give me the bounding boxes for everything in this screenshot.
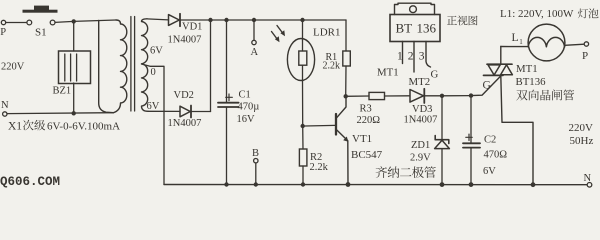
- svg-text:2.9V: 2.9V: [410, 152, 431, 163]
- label triac (Chinese): [516, 90, 574, 101]
- BT136 package legs: [403, 42, 431, 73]
- junction C2 bottom: [469, 182, 474, 187]
- svg-text:BT136: BT136: [516, 76, 547, 88]
- junction triac bottom: [531, 182, 536, 187]
- svg-text:0: 0: [151, 67, 156, 78]
- terminal N (left): [1, 100, 9, 116]
- transformer core: [131, 17, 135, 112]
- transformer T1 primary winding: [99, 20, 127, 113]
- label 0 center tap: [151, 67, 156, 78]
- svg-text:G: G: [483, 80, 491, 92]
- svg-text:6V: 6V: [150, 46, 163, 57]
- svg-text:N: N: [1, 100, 9, 111]
- triac MT1 BT136: [484, 47, 547, 185]
- wire VD2 riser: [210, 20, 212, 112]
- junction emitter: [346, 182, 351, 187]
- resistor R2 2.2k: [299, 126, 328, 185]
- svg-text:Q606.COM: Q606.COM: [0, 175, 60, 189]
- label X1 secondary rating: [8, 120, 120, 133]
- terminal N (right): [584, 173, 592, 187]
- junction LDR bottom / base: [301, 124, 305, 128]
- svg-text:470Ω: 470Ω: [484, 150, 508, 161]
- svg-text:L: L: [512, 32, 519, 44]
- label pin 2: [408, 51, 414, 63]
- junction ZD1 bottom: [440, 182, 445, 187]
- diode VD3 1N4007: [404, 89, 443, 126]
- svg-text:VT1: VT1: [352, 133, 372, 145]
- wire N to transformer primary: [7, 112, 114, 115]
- node A terminal: [251, 20, 259, 58]
- resistor R3 220: [346, 92, 410, 126]
- svg-text:BT: BT: [396, 21, 413, 36]
- label front view (Chinese): [447, 15, 478, 25]
- terminal P (right): [582, 42, 589, 62]
- svg-text:MT1: MT1: [516, 63, 538, 75]
- wire gate: [471, 76, 501, 96]
- wire P to S1: [6, 22, 27, 24]
- wire S1 to transformer primary: [55, 20, 116, 22]
- svg-text:6V: 6V: [483, 166, 496, 177]
- photoresistor LDR1: [287, 20, 340, 126]
- BT136 package body: [390, 15, 440, 42]
- transformer T1 secondary winding: [142, 19, 149, 112]
- svg-text:MT1: MT1: [377, 67, 399, 79]
- svg-text:A: A: [251, 47, 259, 58]
- svg-text:B: B: [252, 148, 259, 159]
- svg-text:2: 2: [408, 51, 414, 63]
- label G pin: [431, 69, 439, 81]
- svg-text:ZD1: ZD1: [411, 140, 430, 151]
- label 220V mains: [1, 62, 25, 73]
- diode VD1 1N4007: [147, 14, 202, 46]
- svg-text:1N4007: 1N4007: [168, 35, 202, 46]
- svg-text:VD2: VD2: [174, 90, 194, 101]
- junction top-left: [72, 19, 76, 23]
- label pin 1: [397, 51, 403, 63]
- svg-text:P: P: [0, 27, 6, 38]
- resistor R1 2.2k: [323, 20, 351, 96]
- buzzer BZ1: [53, 23, 91, 114]
- svg-text:BC547: BC547: [351, 149, 383, 161]
- svg-text:C1: C1: [239, 90, 251, 101]
- wire lamp to P: [565, 44, 584, 45]
- svg-text:VD1: VD1: [182, 22, 202, 33]
- svg-text:6V: 6V: [147, 101, 160, 112]
- label MT1 pin: [377, 67, 399, 79]
- junction C1 top: [224, 18, 228, 22]
- label MT2 pin: [409, 76, 431, 88]
- capacitor C1 470u 16V: [218, 20, 259, 185]
- node B terminal: [252, 148, 259, 184]
- junction C1 bottom: [224, 182, 228, 186]
- light arrows: [272, 26, 286, 43]
- zener diode ZD1 2.9V: [410, 96, 449, 185]
- junction ZD1 top: [440, 94, 444, 98]
- junction R2 bottom: [301, 182, 305, 186]
- lamp L1: [501, 24, 565, 61]
- label zener (Chinese): [375, 166, 435, 178]
- svg-text:G: G: [431, 69, 439, 81]
- label mains 50Hz: [570, 135, 594, 147]
- svg-text:MT2: MT2: [409, 76, 431, 88]
- junction VD riser: [208, 18, 212, 22]
- svg-text:3: 3: [419, 51, 425, 63]
- svg-text:1N4007: 1N4007: [404, 114, 438, 125]
- junction bottom-left: [72, 111, 76, 115]
- wire bottom bus: [164, 184, 587, 186]
- junction C2 top: [469, 93, 473, 97]
- transistor VT1 BC547: [305, 97, 383, 185]
- svg-text:1: 1: [397, 51, 403, 63]
- capacitor C2: [463, 96, 507, 185]
- label 6V top tap: [150, 46, 163, 57]
- svg-text:220V: 220V: [569, 122, 594, 134]
- junction R1/collector/R3: [344, 94, 348, 98]
- svg-text:BZ1: BZ1: [53, 86, 72, 97]
- BT136 package tab: [395, 3, 435, 14]
- svg-text:1: 1: [519, 38, 523, 46]
- label pin 3: [419, 51, 425, 63]
- svg-text:L1: 220V, 100W: L1: 220V, 100W: [500, 8, 574, 20]
- watermark Q606.COM: [0, 175, 60, 189]
- svg-text:6V-0-6V.100mA: 6V-0-6V.100mA: [47, 121, 120, 133]
- wire center tap down: [142, 64, 165, 185]
- svg-text:X1: X1: [8, 121, 22, 133]
- svg-text:220Ω: 220Ω: [357, 115, 381, 126]
- terminal P (left): [0, 20, 6, 38]
- svg-text:136: 136: [417, 21, 437, 36]
- svg-text:C2: C2: [484, 135, 496, 146]
- svg-text:LDR1: LDR1: [313, 27, 341, 39]
- svg-text:2.2k: 2.2k: [310, 162, 329, 173]
- junction B: [254, 182, 258, 186]
- svg-text:50Hz: 50Hz: [570, 135, 594, 147]
- junction LDR top: [300, 18, 304, 22]
- label L1 220V 100W bulb: [500, 8, 599, 20]
- svg-text:R3: R3: [360, 104, 372, 115]
- switch S1: [23, 6, 58, 39]
- junction node A: [252, 18, 256, 22]
- svg-text:16V: 16V: [237, 114, 256, 125]
- svg-text:1N4007: 1N4007: [168, 118, 202, 129]
- label mains 220V: [569, 122, 594, 134]
- diode VD2 1N4007: [148, 90, 211, 129]
- svg-text:P: P: [582, 50, 588, 62]
- svg-text:470µ: 470µ: [238, 102, 260, 113]
- svg-text:S1: S1: [35, 27, 47, 39]
- svg-text:N: N: [584, 173, 592, 184]
- wire VD3 to C2: [442, 95, 471, 97]
- svg-text:220V: 220V: [1, 62, 25, 73]
- label 6V bottom tap: [147, 101, 160, 112]
- wire top bus: [180, 19, 346, 21]
- svg-text:2.2k: 2.2k: [323, 61, 341, 72]
